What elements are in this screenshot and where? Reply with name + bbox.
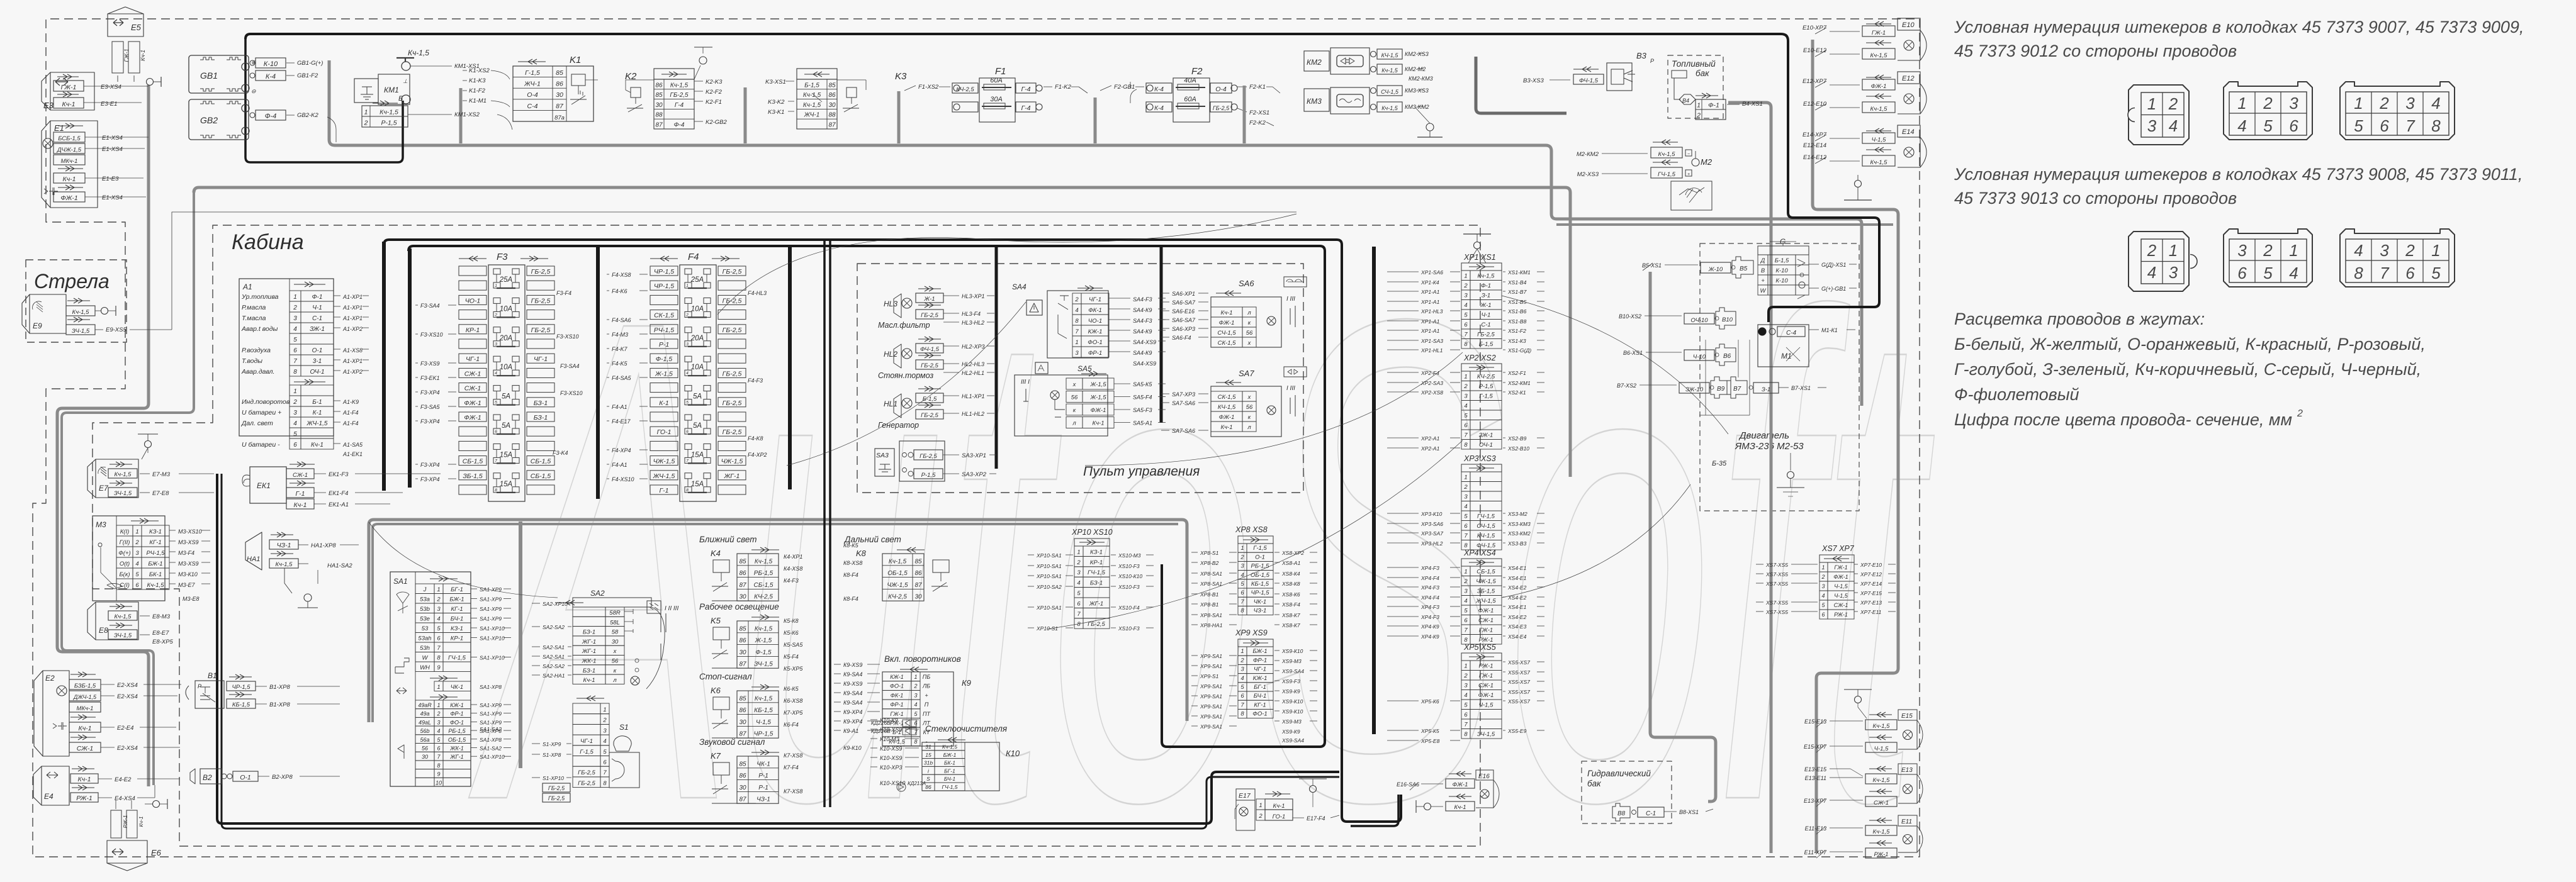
wire harness gray second horizontal	[194, 187, 1570, 477]
svg-text:ФО-1: ФО-1	[1088, 339, 1102, 346]
svg-text:С-4: С-4	[527, 103, 538, 110]
svg-text:XS1-G(Д): XS1-G(Д)	[1507, 347, 1531, 354]
svg-text:SA1-ХР9: SA1-ХР9	[480, 616, 502, 622]
svg-text:Кч-1,5: Кч-1,5	[1381, 67, 1398, 74]
svg-text:Кч-1,5: Кч-1,5	[1381, 105, 1398, 111]
svg-text:КЖ-1: КЖ-1	[450, 702, 464, 708]
svg-text:+: +	[1761, 277, 1765, 284]
svg-text:К10-XS10: К10-XS10	[880, 780, 905, 786]
svg-text:30: 30	[422, 754, 428, 760]
bolt terminal B7	[1727, 377, 1747, 398]
svg-text:ХР2-XS8: ХР2-XS8	[1420, 389, 1443, 396]
svg-text:М1-К1: М1-К1	[1821, 327, 1838, 333]
svg-text:2: 2	[293, 304, 297, 311]
svg-text:Стоп-сигнал: Стоп-сигнал	[699, 672, 752, 681]
svg-text:КЧ-2,5: КЧ-2,5	[888, 594, 907, 601]
svg-text:СЧ-1,5: СЧ-1,5	[1381, 89, 1399, 95]
svg-text:ГБ-2,5: ГБ-2,5	[531, 297, 551, 304]
svg-text:SA2-SA1: SA2-SA1	[543, 654, 565, 660]
svg-text:1: 1	[2169, 241, 2178, 260]
svg-text:HL2: HL2	[884, 350, 897, 359]
svg-text:ХР4-К9: ХР4-К9	[1420, 623, 1439, 630]
svg-text:РЖ-1: РЖ-1	[1478, 663, 1493, 670]
svg-text:СЧ-1,5: СЧ-1,5	[1476, 523, 1495, 530]
wire harness black bottom run	[217, 474, 1339, 823]
svg-text:Ф-1,5: Ф-1,5	[755, 649, 772, 656]
svg-text:ЧГ-1: ЧГ-1	[534, 355, 548, 363]
svg-text:K3-K2: K3-K2	[768, 99, 785, 106]
svg-text:SA1: SA1	[393, 577, 408, 586]
svg-text:SA3-ХР2: SA3-ХР2	[962, 471, 987, 478]
svg-text:2: 2	[2263, 94, 2273, 113]
svg-text:КМ2: КМ2	[1307, 58, 1322, 67]
svg-text:6: 6	[293, 442, 297, 449]
svg-text:ФЖ-1: ФЖ-1	[1833, 574, 1848, 580]
connector pinout 2x4 mirrored	[2340, 229, 2455, 287]
svg-text:ФЖ-1: ФЖ-1	[1478, 608, 1494, 615]
gray stubs on top harness	[744, 87, 747, 143]
svg-text:В1-ХР8: В1-ХР8	[269, 684, 290, 691]
svg-text:В10: В10	[1722, 316, 1733, 323]
svg-text:GB1-F2: GB1-F2	[297, 72, 318, 79]
svg-text:ЧЖ-1,5: ЧЖ-1,5	[653, 458, 675, 466]
svg-text:F3-XP4: F3-XP4	[420, 462, 440, 468]
svg-text:K2-K3: K2-K3	[706, 79, 723, 86]
svg-text:86: 86	[655, 82, 663, 89]
svg-text:2: 2	[1463, 282, 1468, 289]
svg-text:В8: В8	[1617, 810, 1626, 817]
svg-text:49a: 49a	[420, 711, 429, 717]
wire harness gray mid (SA1 area)	[369, 520, 1187, 722]
svg-text:ГЖ-1: ГЖ-1	[1872, 30, 1886, 36]
svg-text:Дал. свет: Дал. свет	[241, 420, 273, 427]
svg-text:СЖ-1: СЖ-1	[1478, 617, 1493, 624]
svg-text:Расцветка проводов в жгутах:: Расцветка проводов в жгутах:	[1954, 310, 2205, 328]
svg-text:БЗ-1: БЗ-1	[583, 667, 595, 674]
svg-text:О-1: О-1	[1255, 554, 1265, 561]
svg-text:КЖ-1: КЖ-1	[1253, 675, 1268, 682]
svg-text:XS5-XS7: XS5-XS7	[1507, 689, 1530, 695]
svg-text:К-4: К-4	[266, 73, 276, 81]
wire harness gray KM1 stub	[459, 88, 463, 143]
svg-text:ЕК1: ЕК1	[257, 481, 271, 490]
lamp E11	[1898, 815, 1917, 826]
svg-text:SA1-SA2: SA1-SA2	[480, 745, 502, 752]
svg-text:2: 2	[913, 683, 917, 689]
svg-text:Цифра после цвета провода- сеч: Цифра после цвета провода- сечение, мм	[1954, 410, 2292, 429]
svg-text:F4: F4	[688, 252, 699, 262]
svg-text:4: 4	[1464, 302, 1467, 309]
svg-text:Ф-1: Ф-1	[1708, 102, 1719, 109]
svg-text:F3-F4: F3-F4	[556, 290, 571, 296]
svg-text:ГБ-2,5: ГБ-2,5	[920, 453, 937, 460]
svg-text:ЧК-1: ЧК-1	[451, 684, 463, 691]
svg-text:ХР1\XS1: ХР1\XS1	[1463, 253, 1496, 262]
svg-text:6: 6	[603, 759, 607, 766]
ground near E17	[1299, 778, 1327, 779]
svg-text:ГЧ-1,5: ГЧ-1,5	[942, 784, 958, 790]
svg-text:56: 56	[612, 658, 619, 665]
svg-text:XS4-Е4: XS4-Е4	[1507, 634, 1527, 640]
svg-text:87: 87	[739, 796, 746, 803]
svg-text:E7-Е8: E7-Е8	[152, 490, 169, 497]
engine dashed box (Двигатель ЯМЗ-236 М2-53)	[1700, 243, 1859, 511]
svg-text:S1-ХР8: S1-ХР8	[543, 752, 561, 758]
svg-text:K8: K8	[856, 549, 867, 558]
svg-text:3: 3	[686, 342, 689, 347]
svg-text:ФЖ-1: ФЖ-1	[464, 399, 481, 407]
svg-text:К9-SA4: К9-SA4	[843, 690, 862, 696]
svg-text:Ф-1: Ф-1	[312, 294, 323, 301]
svg-text:F3-EK1: F3-EK1	[420, 375, 440, 381]
svg-text:2: 2	[602, 717, 607, 724]
svg-text:F4-K7: F4-K7	[612, 346, 628, 352]
svg-text:к: к	[1248, 414, 1251, 421]
svg-text:3: 3	[914, 692, 917, 698]
svg-text:Е13-Е11: Е13-Е11	[1805, 775, 1826, 781]
svg-text:XS9-К9: XS9-К9	[1281, 688, 1300, 695]
svg-text:3: 3	[1464, 293, 1468, 299]
lamp E16	[1476, 770, 1493, 780]
svg-text:M1: M1	[1781, 352, 1792, 360]
svg-text:Кч-1: Кч-1	[1093, 420, 1105, 427]
svg-text:3: 3	[1077, 569, 1081, 576]
svg-text:XS9-К10: XS9-К10	[1281, 708, 1303, 715]
svg-text:ХР3\XS3: ХР3\XS3	[1463, 454, 1496, 463]
svg-text:E4-E2: E4-E2	[115, 776, 132, 783]
svg-text:Ч-1,5: Ч-1,5	[1834, 593, 1848, 599]
svg-text:В6: В6	[1723, 353, 1731, 360]
svg-text:РБ-1,5: РБ-1,5	[754, 570, 773, 577]
svg-text:М2-КМ2: М2-КМ2	[1577, 151, 1599, 158]
svg-text:Звуковой сигнал: Звуковой сигнал	[699, 737, 765, 747]
svg-text:К9-XS9: К9-XS9	[843, 681, 862, 687]
svg-text:ФЖ-1: ФЖ-1	[60, 194, 77, 202]
svg-text:ХР9-SA1: ХР9-SA1	[1200, 663, 1222, 669]
svg-text:8: 8	[495, 488, 497, 493]
wiper motor M2	[1653, 140, 1678, 145]
svg-text:5: 5	[1240, 684, 1244, 691]
svg-text:Кч-1,5: Кч-1,5	[803, 92, 821, 99]
svg-text:8: 8	[603, 780, 607, 787]
svg-text:3: 3	[1240, 563, 1244, 570]
svg-text:AutoSoft: AutoSoft	[464, 177, 1934, 882]
svg-text:5А: 5А	[502, 393, 510, 401]
svg-text:ХР10-SA1: ХР10-SA1	[1036, 563, 1062, 569]
svg-text:HL3-ХР1: HL3-ХР1	[962, 293, 985, 299]
svg-text:В9: В9	[1717, 386, 1725, 393]
svg-text:Ф-4: Ф-4	[674, 122, 685, 129]
svg-text:Кч-1,5: Кч-1,5	[115, 471, 132, 478]
svg-text:4: 4	[1464, 598, 1467, 605]
svg-text:ХР1-HL3: ХР1-HL3	[1420, 308, 1443, 315]
svg-text:15А: 15А	[691, 451, 704, 459]
svg-text:1: 1	[495, 284, 497, 288]
lamp E13	[1898, 764, 1917, 774]
svg-text:К-10: К-10	[1775, 277, 1788, 284]
svg-text:ХР10-SA1: ХР10-SA1	[1036, 605, 1062, 611]
svg-text:ФО-1: ФО-1	[450, 719, 464, 725]
svg-text:SA3-ХР1: SA3-ХР1	[962, 452, 986, 459]
svg-text:ФО-1: ФО-1	[1252, 711, 1267, 718]
svg-text:ФЖ-1: ФЖ-1	[1871, 83, 1887, 90]
svg-text:ЖГ-1: ЖГ-1	[449, 754, 463, 760]
svg-text:30: 30	[556, 91, 563, 99]
svg-text:−: −	[1687, 152, 1690, 157]
wire harness dark B3/KM2 drop	[1476, 57, 1566, 113]
svg-text:К6-К5: К6-К5	[784, 686, 799, 692]
svg-text:Кч-1: Кч-1	[79, 725, 92, 732]
svg-text:Авар.t воды: Авар.t воды	[241, 325, 278, 333]
svg-text:XS5-XS7: XS5-XS7	[1507, 698, 1530, 705]
svg-text:1: 1	[603, 706, 606, 713]
svg-text:ЕК1-А1: ЕК1-А1	[329, 501, 349, 508]
svg-text:Кч-1,5: Кч-1,5	[942, 744, 957, 750]
svg-text:к: к	[614, 667, 617, 674]
svg-text:Ж-1: Ж-1	[923, 296, 935, 303]
svg-text:B3-XS3: B3-XS3	[1523, 77, 1544, 84]
svg-text:К4-F3: К4-F3	[784, 578, 799, 584]
svg-text:7: 7	[2380, 264, 2390, 282]
svg-text:ХР3-SA6: ХР3-SA6	[1420, 521, 1443, 527]
svg-text:ЗБ-1,5: ЗБ-1,5	[1477, 588, 1495, 595]
turn lamp E3	[42, 72, 94, 110]
svg-text:6: 6	[2237, 264, 2247, 282]
svg-text:⊥: ⊥	[403, 78, 408, 84]
svg-text:K2-F2: K2-F2	[706, 89, 723, 96]
svg-text:6: 6	[1464, 523, 1468, 530]
svg-text:БЗ-1: БЗ-1	[583, 629, 595, 636]
svg-text:Р-1,5: Р-1,5	[381, 120, 397, 127]
svg-text:XS2-F1: XS2-F1	[1507, 370, 1526, 376]
svg-text:6: 6	[495, 430, 497, 434]
svg-text:Ж-10: Ж-10	[1708, 266, 1723, 273]
svg-text:30: 30	[655, 102, 663, 109]
svg-text:XS7-XS5: XS7-XS5	[1765, 562, 1788, 568]
svg-text:8: 8	[2354, 264, 2363, 282]
svg-text:Вкл. поворотников: Вкл. поворотников	[884, 654, 961, 664]
svg-text:5: 5	[2354, 116, 2363, 135]
svg-text:K3: K3	[895, 71, 907, 82]
svg-text:E15: E15	[1901, 713, 1913, 720]
svg-text:6: 6	[437, 745, 440, 752]
svg-text:6: 6	[2380, 116, 2389, 135]
svg-text:ГО-1: ГО-1	[657, 428, 672, 436]
wire harness gray second strand left	[62, 193, 194, 785]
svg-text:Кч-1,5: Кч-1,5	[1870, 106, 1888, 113]
svg-text:A1-XP1: A1-XP1	[342, 304, 363, 311]
svg-text:Кч-1: Кч-1	[138, 816, 144, 827]
svg-text:E10: E10	[1902, 21, 1915, 29]
svg-text:F3-XP4: F3-XP4	[420, 389, 440, 396]
wire harness black vertical right of F4 short	[788, 246, 792, 489]
svg-text:КМ1-XS2: КМ1-XS2	[454, 111, 480, 118]
svg-text:4: 4	[2354, 241, 2363, 260]
svg-text:WH: WH	[420, 664, 430, 671]
svg-text:1: 1	[2354, 94, 2363, 113]
svg-text:К5-К6: К5-К6	[784, 630, 799, 636]
svg-text:Рабочее освещение: Рабочее освещение	[699, 602, 779, 611]
svg-text:Кч-1: Кч-1	[62, 101, 76, 108]
svg-text:86: 86	[739, 773, 746, 779]
svg-text:4: 4	[495, 371, 497, 376]
svg-text:88: 88	[655, 112, 663, 119]
svg-text:XS10-F4: XS10-F4	[1118, 605, 1140, 611]
svg-text:5: 5	[135, 571, 139, 578]
svg-text:1: 1	[1075, 339, 1078, 346]
svg-text:53: 53	[422, 625, 429, 632]
svg-text:6: 6	[2289, 116, 2298, 135]
svg-text:F3-SA4: F3-SA4	[560, 363, 580, 369]
svg-text:1: 1	[1464, 273, 1467, 280]
svg-text:5А: 5А	[693, 422, 702, 430]
svg-text:П: П	[925, 701, 929, 708]
terminal F-4 GB2	[250, 113, 255, 118]
svg-text:SA4-К9: SA4-К9	[1133, 350, 1152, 356]
svg-text:XS8-К6: XS8-К6	[1281, 591, 1300, 598]
wire harness gray E3/E1 left drop	[57, 85, 149, 786]
svg-text:ГЧ-1,5: ГЧ-1,5	[1088, 569, 1106, 576]
svg-text:ЗЧ-1,5: ЗЧ-1,5	[114, 632, 132, 639]
svg-text:К10: К10	[1006, 749, 1020, 758]
svg-text:Кч-1,5: Кч-1,5	[889, 558, 907, 565]
svg-text:КЧ-2,5: КЧ-2,5	[956, 86, 974, 93]
svg-text:В7-XS1: В7-XS1	[1791, 385, 1811, 391]
svg-text:K1-M1: K1-M1	[469, 98, 487, 104]
svg-text:1: 1	[1464, 374, 1467, 381]
svg-text:SA4-F3: SA4-F3	[1133, 318, 1152, 324]
svg-text:Р.масла: Р.масла	[242, 304, 266, 311]
svg-text:3: 3	[1464, 393, 1468, 400]
svg-text:XS2-В9: XS2-В9	[1507, 435, 1527, 442]
svg-text:Кч-1: Кч-1	[78, 776, 91, 783]
svg-text:GB1-G(+): GB1-G(+)	[297, 60, 323, 67]
svg-text:J: J	[423, 586, 427, 593]
bolt terminal B5	[1701, 262, 1731, 273]
svg-text:ГЖ-1: ГЖ-1	[1479, 627, 1493, 634]
diode KD213A	[897, 783, 906, 791]
svg-text:XS4-Е2: XS4-Е2	[1507, 614, 1527, 620]
svg-text:В5: В5	[1740, 265, 1748, 272]
svg-text:XS3-КМ3: XS3-КМ3	[1507, 521, 1531, 527]
svg-text:53ah: 53ah	[418, 635, 431, 642]
svg-text:K2-F1: K2-F1	[706, 99, 722, 106]
svg-text:ХР4-F3: ХР4-F3	[1420, 584, 1439, 591]
svg-text:E4: E4	[44, 792, 53, 801]
svg-text:6: 6	[1464, 422, 1468, 429]
svg-text:КД226В: КД226В	[871, 728, 891, 734]
svg-text:F2: F2	[1191, 66, 1203, 77]
svg-text:ЖЧ-1: ЖЧ-1	[804, 112, 820, 119]
svg-text:Инд.поворотов: Инд.поворотов	[242, 398, 290, 406]
svg-text:53h: 53h	[420, 645, 430, 652]
ground above E15	[1844, 689, 1872, 690]
svg-text:Г-1: Г-1	[295, 490, 305, 498]
svg-text:КМ3-XS3: КМ3-XS3	[1405, 87, 1429, 94]
svg-text:К7-F4: К7-F4	[784, 764, 799, 771]
svg-text:1: 1	[2289, 241, 2298, 260]
wire harness black vertical SA4	[995, 247, 998, 469]
svg-text:О-1: О-1	[312, 347, 323, 354]
svg-text:2: 2	[1821, 574, 1825, 580]
svg-text:Т.масла: Т.масла	[242, 315, 266, 322]
svg-text:Р-1,5: Р-1,5	[921, 472, 936, 479]
svg-text:K2: K2	[625, 71, 637, 82]
svg-text:SA1-ХР9: SA1-ХР9	[480, 719, 502, 725]
svg-text:SA5-А1: SA5-А1	[1133, 420, 1152, 427]
svg-text:3: 3	[2169, 263, 2178, 282]
svg-text:HL3: HL3	[884, 299, 897, 308]
svg-text:Кч-1,5: Кч-1,5	[1870, 159, 1888, 166]
svg-text:F3: F3	[497, 252, 508, 262]
svg-text:E14: E14	[1902, 128, 1915, 136]
control panel dashed box (Пульт управления)	[857, 264, 1303, 493]
svg-text:Кч-1,5: Кч-1,5	[1873, 777, 1891, 784]
svg-text:1: 1	[686, 284, 689, 288]
svg-text:8: 8	[2431, 116, 2441, 135]
svg-text:С-1: С-1	[312, 315, 322, 322]
svg-text:К9-А1: К9-А1	[843, 728, 858, 734]
svg-text:31b: 31b	[924, 760, 933, 766]
svg-text:2: 2	[364, 120, 368, 127]
svg-text:S: S	[926, 776, 930, 782]
svg-text:БЗ-1: БЗ-1	[534, 399, 548, 407]
outer dashed border	[33, 19, 1920, 857]
svg-text:6: 6	[1821, 611, 1825, 618]
svg-text:К4-XS8: К4-XS8	[784, 566, 802, 572]
svg-text:КЖ-1: КЖ-1	[890, 674, 904, 680]
svg-text:РБ-1,5: РБ-1,5	[1251, 563, 1270, 570]
svg-text:Г-1,5: Г-1,5	[580, 749, 593, 756]
svg-text:КМ1: КМ1	[384, 86, 399, 94]
svg-text:ХР2-А1: ХР2-А1	[1420, 445, 1440, 452]
svg-text:85: 85	[739, 625, 746, 632]
svg-text:SA1-ХР10: SA1-ХР10	[480, 625, 505, 632]
svg-text:1: 1	[914, 674, 917, 680]
svg-text:ОБ-1,5: ОБ-1,5	[887, 570, 908, 577]
svg-text:М3: М3	[96, 520, 106, 529]
svg-text:ХР2\XS2: ХР2\XS2	[1463, 354, 1496, 362]
svg-text:K4: K4	[711, 549, 721, 558]
terminal K-10 GB1	[250, 60, 255, 65]
svg-text:XS9-К10: XS9-К10	[1281, 698, 1303, 705]
svg-text:87: 87	[828, 122, 836, 129]
svg-text:3: 3	[495, 342, 497, 347]
svg-text:E9-XS5: E9-XS5	[106, 327, 127, 333]
svg-text:2: 2	[2405, 241, 2415, 260]
svg-text:ГБ-2,5: ГБ-2,5	[548, 785, 565, 791]
svg-text:СБ-1,5: СБ-1,5	[463, 458, 483, 466]
svg-text:КР-1: КР-1	[466, 327, 480, 334]
connector pinout 2x2 normal	[2129, 85, 2189, 145]
svg-text:ЕК1-F3: ЕК1-F3	[329, 471, 349, 478]
svg-text:Кч-1,5: Кч-1,5	[1658, 151, 1676, 158]
svg-text:XS10-F3: XS10-F3	[1118, 584, 1140, 590]
svg-text:С-1: С-1	[1481, 321, 1490, 328]
svg-text:Гидравлический: Гидравлический	[1587, 769, 1651, 778]
svg-text:ГБ-2,5: ГБ-2,5	[921, 312, 938, 319]
svg-text:ЛБ: ЛБ	[922, 683, 930, 689]
svg-text:К-10: К-10	[1775, 267, 1788, 274]
svg-text:БЖ-1: БЖ-1	[943, 752, 957, 758]
svg-text:SA6-SA7: SA6-SA7	[1172, 299, 1196, 306]
svg-text:87: 87	[914, 582, 922, 589]
svg-text:ХР4-F4: ХР4-F4	[1420, 575, 1439, 581]
svg-text:E3: E3	[43, 101, 54, 110]
watermark AutoSoft	[464, 177, 1934, 882]
svg-text:СЖ-1: СЖ-1	[1478, 683, 1493, 689]
svg-text:XS3-М2: XS3-М2	[1507, 511, 1527, 517]
